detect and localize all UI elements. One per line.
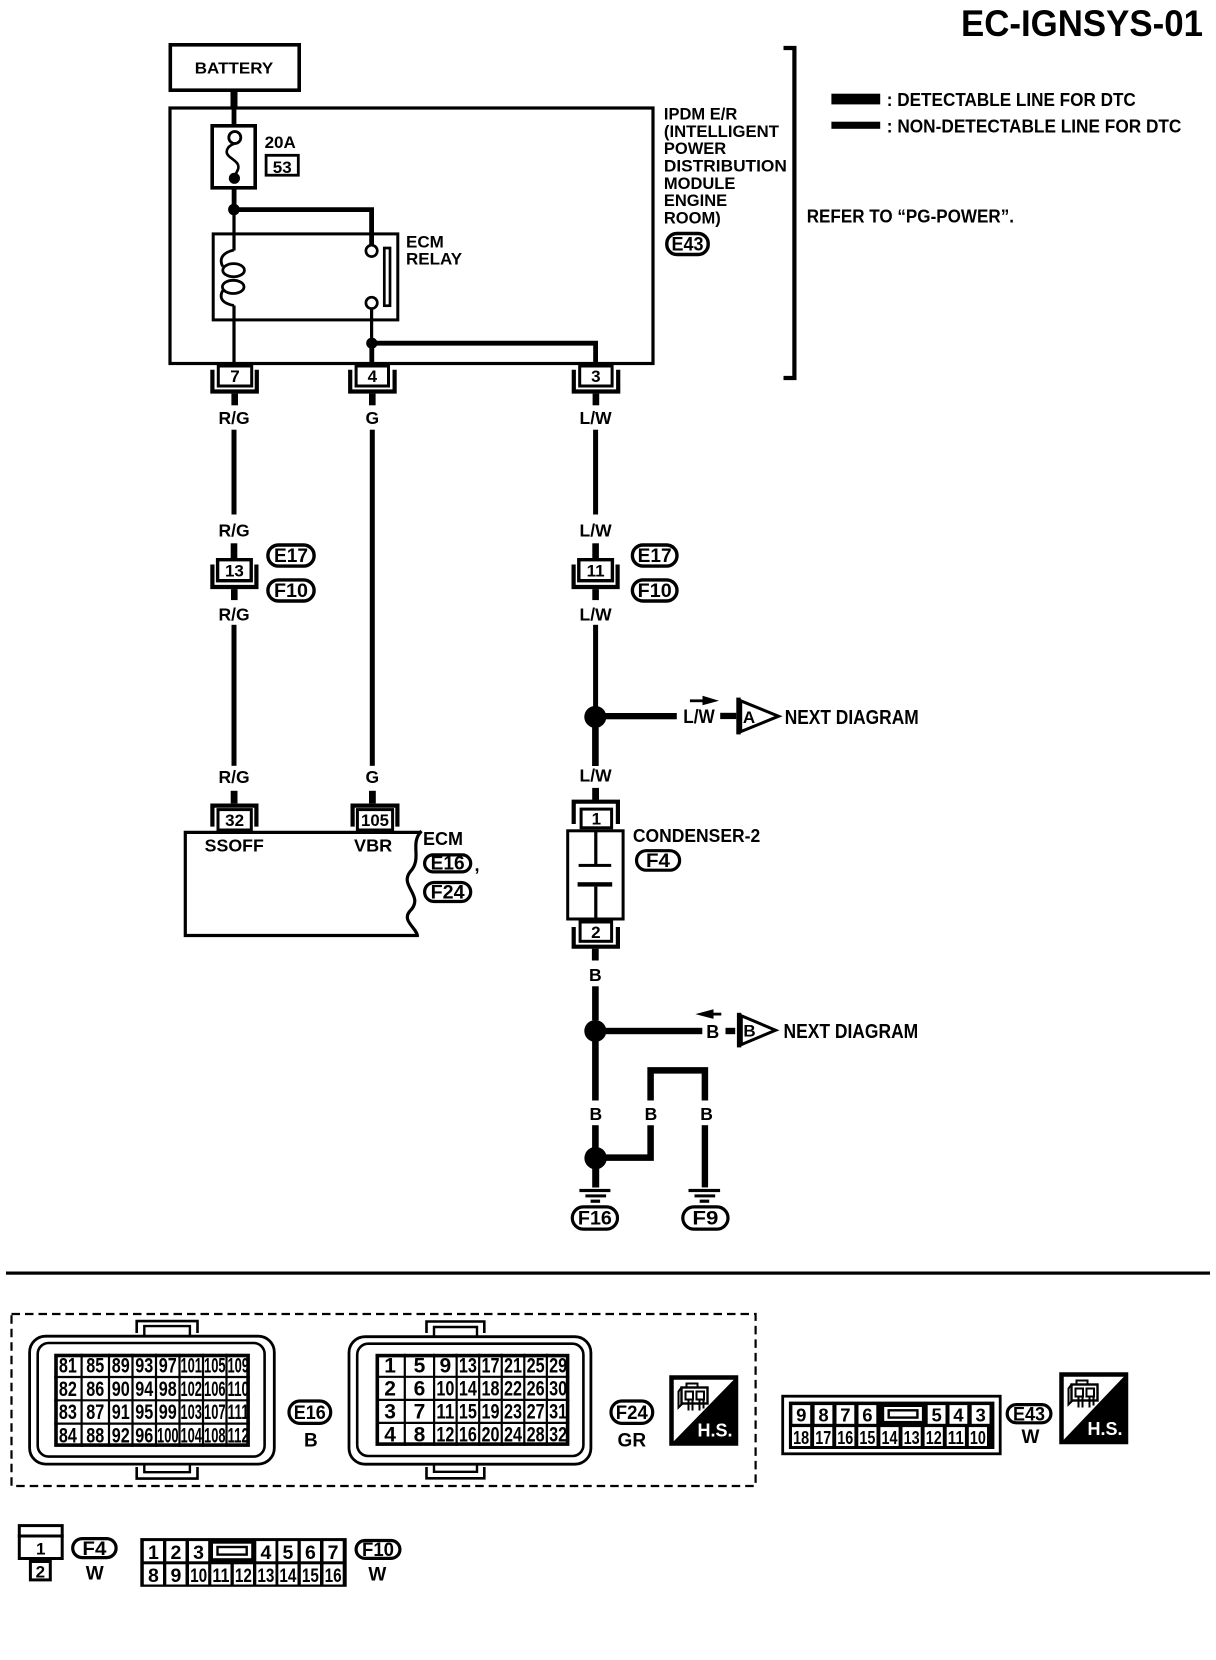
wire coil to pin 7 (232, 306, 235, 365)
connector oval E43 (IPDM) (667, 234, 708, 256)
svg-text:B: B (589, 965, 602, 985)
svg-text:G: G (365, 408, 379, 428)
svg-text:95: 95 (135, 1401, 153, 1424)
wire G segment (continuous) (370, 430, 375, 766)
svg-text:RELAY: RELAY (406, 250, 463, 269)
ground symbol F9 (689, 1189, 721, 1203)
condenser pin 2 (574, 922, 618, 947)
ECM box (185, 831, 421, 937)
wire B to junction 3 (592, 1125, 599, 1147)
svg-text:14: 14 (279, 1565, 296, 1587)
svg-text:4: 4 (953, 1405, 964, 1426)
svg-text:B: B (645, 1104, 658, 1124)
svg-text:F24: F24 (431, 883, 465, 904)
connector E43 body (783, 1396, 1001, 1454)
junction dot 2 (584, 1020, 606, 1042)
svg-text:10: 10 (970, 1427, 986, 1448)
svg-text:88: 88 (86, 1425, 104, 1448)
svg-text:E16: E16 (294, 1403, 326, 1424)
svg-text:7: 7 (230, 367, 239, 386)
svg-text:89: 89 (112, 1355, 130, 1378)
fuse number box 53 (266, 155, 298, 177)
pin 4 (IPDM) (350, 366, 394, 405)
svg-text:L/W: L/W (580, 605, 613, 625)
svg-text:13: 13 (904, 1427, 920, 1448)
connector oval F4 (condenser) (637, 851, 680, 872)
svg-text:28: 28 (527, 1424, 545, 1447)
svg-text:NEXT DIAGRAM: NEXT DIAGRAM (785, 707, 919, 729)
ground branch right leg (702, 1125, 708, 1187)
svg-text:L/W: L/W (580, 521, 613, 541)
svg-text:24: 24 (504, 1424, 522, 1447)
legend detectable bar (831, 94, 880, 105)
junction dot 3 (584, 1147, 606, 1169)
svg-text:87: 87 (86, 1401, 104, 1424)
H.S. mark (right) (1062, 1375, 1127, 1443)
svg-text:6: 6 (305, 1542, 316, 1564)
arrow above B branch (695, 1009, 721, 1019)
svg-text:81: 81 (59, 1355, 77, 1378)
ground symbol F16 (579, 1189, 610, 1203)
svg-text:3: 3 (591, 367, 600, 386)
arrow above L/W branch (690, 696, 719, 706)
svg-text:11: 11 (212, 1565, 229, 1587)
connector F10 pin cells top (144, 1541, 343, 1564)
svg-text:109: 109 (227, 1355, 249, 1378)
wire R/G segment 1 (232, 430, 237, 515)
svg-text:103: 103 (180, 1401, 202, 1424)
relay contact bar (384, 248, 390, 306)
svg-text:F10: F10 (638, 581, 672, 602)
svg-text:1: 1 (36, 1540, 45, 1559)
svg-text:4: 4 (260, 1542, 271, 1564)
connector F10 pin cells bottom (144, 1564, 343, 1587)
svg-text:9: 9 (796, 1405, 806, 1426)
svg-text:104: 104 (180, 1425, 202, 1448)
connector E43 pin cells bottom (792, 1427, 987, 1448)
svg-text:92: 92 (112, 1425, 130, 1448)
svg-text:17: 17 (815, 1427, 831, 1448)
wire R/G stub into 13 (231, 543, 238, 558)
relay contact lower circle (366, 297, 377, 308)
connector oval F4 (harness) (73, 1539, 116, 1560)
svg-text:12: 12 (926, 1427, 942, 1448)
condenser C2 body (568, 830, 623, 921)
IPDM E/R box (170, 108, 653, 364)
svg-text:F24: F24 (616, 1403, 648, 1424)
junction dot A (228, 204, 240, 216)
svg-text:R/G: R/G (218, 408, 249, 428)
svg-text:110: 110 (227, 1378, 249, 1401)
svg-text:W: W (368, 1565, 386, 1586)
wire junction A down to coil (232, 210, 235, 251)
svg-text:99: 99 (159, 1401, 177, 1424)
svg-text:16: 16 (325, 1565, 342, 1587)
svg-text:29: 29 (549, 1355, 567, 1378)
connector F24 body (349, 1322, 591, 1479)
connector oval F10 (harness) (356, 1540, 400, 1561)
svg-text:ROOM): ROOM) (664, 209, 721, 227)
wire junction B to pin 4 (369, 343, 374, 364)
svg-text:W: W (1022, 1427, 1040, 1448)
svg-text:94: 94 (135, 1378, 153, 1401)
wire L/W below junction 1 (592, 727, 599, 766)
svg-text:11: 11 (948, 1427, 964, 1448)
svg-text:32: 32 (549, 1424, 567, 1447)
svg-text:18: 18 (482, 1378, 500, 1401)
svg-text:26: 26 (527, 1378, 545, 1401)
svg-text:17: 17 (482, 1355, 500, 1378)
connector oval F9 (683, 1207, 728, 1230)
svg-text:3: 3 (384, 1401, 396, 1424)
svg-text:11: 11 (436, 1401, 454, 1424)
svg-text:7: 7 (840, 1405, 850, 1426)
svg-text:14: 14 (882, 1427, 899, 1448)
connector F10 keyway (213, 1544, 251, 1559)
svg-text:NEXT DIAGRAM: NEXT DIAGRAM (784, 1021, 919, 1043)
svg-text:105: 105 (204, 1355, 226, 1378)
H.S. mark (left) (672, 1378, 737, 1444)
svg-text:L/W: L/W (580, 408, 613, 428)
branch wire to B (595, 1028, 702, 1034)
separator line (6, 1272, 1210, 1275)
wire battery to IPDM (231, 92, 238, 109)
wire L/W stub into 11 (592, 543, 599, 558)
svg-text:107: 107 (204, 1401, 226, 1424)
svg-text:19: 19 (482, 1401, 500, 1424)
connector oval F10 (left) (268, 580, 314, 602)
svg-text:8: 8 (818, 1405, 828, 1426)
svg-text:91: 91 (112, 1401, 130, 1424)
ECM relay box (213, 234, 398, 320)
battery B1 (170, 45, 299, 90)
svg-text:83: 83 (59, 1401, 77, 1424)
branch stub to triangle A (720, 713, 736, 719)
svg-text:A: A (743, 708, 755, 727)
inline connector 11 (574, 560, 618, 600)
svg-text:F4: F4 (646, 851, 670, 872)
svg-text:SSOFF: SSOFF (205, 836, 265, 856)
svg-text:8: 8 (148, 1565, 159, 1587)
svg-text:6: 6 (414, 1378, 426, 1401)
svg-text:E43: E43 (672, 234, 704, 255)
svg-text:13: 13 (459, 1355, 477, 1378)
svg-text:12: 12 (436, 1424, 454, 1447)
svg-text:12: 12 (235, 1565, 252, 1587)
svg-text:31: 31 (549, 1401, 567, 1424)
connector oval E17 (right) (632, 545, 677, 567)
junction dot B (366, 338, 377, 349)
svg-text:16: 16 (837, 1427, 853, 1448)
wire L/W segment 2 (593, 625, 598, 707)
svg-text:H.S.: H.S. (698, 1421, 733, 1441)
svg-text:112: 112 (227, 1425, 249, 1448)
off-page triangle A (736, 698, 778, 735)
svg-text:F16: F16 (578, 1209, 612, 1230)
svg-text:101: 101 (180, 1355, 202, 1378)
svg-text:85: 85 (86, 1355, 104, 1378)
wire stub below condenser (592, 949, 599, 961)
fuse 20A 53 (212, 126, 255, 188)
wire junction 3 to ground (592, 1169, 599, 1188)
wire R/G segment 2 (232, 625, 237, 766)
svg-text:E16: E16 (431, 854, 465, 875)
svg-text:F9: F9 (692, 1209, 718, 1230)
connector oval F24 (ECM) (425, 883, 471, 904)
dashed harness box (12, 1314, 756, 1486)
svg-text:W: W (86, 1564, 104, 1585)
svg-text:E17: E17 (274, 546, 308, 567)
svg-text:F4: F4 (82, 1539, 106, 1560)
svg-text:4: 4 (384, 1424, 396, 1447)
svg-text:: DETECTABLE LINE FOR DTC: : DETECTABLE LINE FOR DTC (887, 90, 1136, 110)
pin 7 (IPDM) (212, 366, 256, 405)
svg-text:2: 2 (384, 1378, 396, 1401)
svg-text:93: 93 (135, 1355, 153, 1378)
branch wire to A (595, 713, 677, 719)
bracket right of IPDM (784, 48, 795, 378)
svg-text:B: B (589, 1104, 602, 1124)
svg-text:13: 13 (257, 1565, 274, 1587)
svg-text:3: 3 (193, 1542, 204, 1564)
wire into fuse (232, 108, 237, 132)
ground branch left leg lower (606, 1125, 651, 1157)
svg-text:GR: GR (618, 1431, 647, 1452)
svg-text:2: 2 (170, 1542, 181, 1564)
svg-text:15: 15 (302, 1565, 319, 1587)
svg-text:25: 25 (527, 1355, 545, 1378)
wire junction B to pin 3 (372, 343, 596, 364)
svg-text:R/G: R/G (218, 605, 249, 625)
svg-text:1: 1 (384, 1355, 396, 1378)
svg-text:H.S.: H.S. (1088, 1419, 1123, 1439)
relay coil (221, 250, 244, 306)
svg-text:106: 106 (204, 1378, 226, 1401)
svg-text:ENGINE: ENGINE (664, 192, 727, 210)
condenser pin 1 (574, 802, 618, 829)
connector oval E43 (harness) (1007, 1404, 1051, 1425)
svg-text:11: 11 (587, 562, 605, 581)
svg-text:97: 97 (159, 1355, 177, 1378)
svg-text:L/W: L/W (580, 766, 613, 786)
svg-text:32: 32 (225, 811, 244, 830)
svg-text:F10: F10 (274, 581, 308, 602)
svg-text:POWER: POWER (664, 140, 726, 158)
wire B below junction 2 (592, 1042, 599, 1101)
svg-text:B: B (743, 1022, 755, 1041)
IPDM annotation text (664, 106, 787, 228)
svg-text:27: 27 (527, 1401, 545, 1424)
wire fuse to junction (232, 190, 237, 205)
connector E16 body (30, 1321, 275, 1479)
connector E43 pin cells top (792, 1405, 989, 1426)
connector F4 body (18, 1526, 64, 1582)
svg-text:10: 10 (436, 1378, 454, 1401)
connector oval F10 (right) (632, 580, 677, 602)
connector F10 body (140, 1538, 346, 1587)
svg-text:30: 30 (549, 1378, 567, 1401)
svg-text:22: 22 (504, 1378, 522, 1401)
connector E43 keyway (884, 1407, 922, 1421)
svg-text:L/W: L/W (683, 707, 715, 728)
svg-text:10: 10 (190, 1565, 207, 1587)
relay contact upper circle (366, 245, 377, 256)
svg-text:E17: E17 (638, 546, 672, 567)
svg-text:18: 18 (793, 1427, 809, 1448)
svg-text:REFER TO “PG-POWER”.: REFER TO “PG-POWER”. (807, 207, 1014, 227)
svg-text:7: 7 (328, 1542, 339, 1564)
pin 3 (IPDM) (574, 366, 618, 405)
svg-text:DISTRIBUTION: DISTRIBUTION (664, 158, 787, 176)
svg-text:E43: E43 (1013, 1404, 1045, 1425)
connector oval F16 (572, 1207, 617, 1230)
svg-text:2: 2 (591, 923, 600, 942)
svg-text:1: 1 (592, 810, 601, 829)
ground branch U top (651, 1070, 705, 1100)
svg-text:EC-IGNSYS-01: EC-IGNSYS-01 (961, 3, 1203, 44)
connector oval F24 (harness) (611, 1401, 653, 1424)
svg-text:2: 2 (36, 1563, 45, 1582)
svg-text:(INTELLIGENT: (INTELLIGENT (664, 123, 779, 141)
wire junction A to relay contact (234, 210, 372, 245)
wire contact to junction B (370, 309, 373, 344)
connector E16 pin grid (54, 1354, 250, 1448)
off-page triangle B (737, 1013, 776, 1048)
svg-text:13: 13 (225, 562, 244, 581)
legend non-detectable bar (831, 122, 880, 129)
wire B to junction 2 (592, 986, 599, 1020)
svg-text:7: 7 (414, 1401, 426, 1424)
svg-text:4: 4 (368, 367, 378, 386)
inline connector 13 (212, 560, 256, 600)
svg-text:,: , (475, 855, 480, 875)
svg-text:R/G: R/G (218, 521, 249, 541)
svg-text:B: B (700, 1104, 713, 1124)
svg-text:3: 3 (975, 1405, 985, 1426)
svg-text:9: 9 (170, 1565, 181, 1587)
pin 32 (ECM) (212, 806, 256, 830)
svg-text:1: 1 (148, 1542, 159, 1564)
svg-text:86: 86 (86, 1378, 104, 1401)
svg-text:100: 100 (157, 1425, 179, 1448)
wire R/G stub to pin 32 (231, 791, 238, 804)
svg-text:98: 98 (159, 1378, 177, 1401)
svg-text:105: 105 (361, 811, 389, 830)
svg-text:B: B (706, 1022, 719, 1042)
svg-text:G: G (365, 767, 379, 787)
svg-text:9: 9 (440, 1355, 452, 1378)
connector oval E16 (harness) (289, 1401, 331, 1424)
svg-text:CONDENSER-2: CONDENSER-2 (633, 826, 760, 846)
connector F24 pin grid (376, 1354, 570, 1447)
svg-text:111: 111 (227, 1401, 249, 1424)
svg-text:53: 53 (273, 158, 292, 177)
svg-text:21: 21 (504, 1355, 522, 1378)
svg-text:5: 5 (414, 1355, 426, 1378)
svg-text:82: 82 (59, 1378, 77, 1401)
connector oval E17 (left) (268, 545, 314, 567)
svg-text:108: 108 (204, 1425, 226, 1448)
wire L/W segment 1 (593, 430, 598, 515)
junction dot 1 (584, 706, 606, 728)
svg-text:15: 15 (459, 1401, 477, 1424)
svg-text:5: 5 (282, 1542, 293, 1564)
svg-text:5: 5 (931, 1405, 941, 1426)
svg-text:16: 16 (459, 1424, 477, 1447)
svg-text:VBR: VBR (354, 836, 393, 856)
svg-text:96: 96 (135, 1425, 153, 1448)
svg-text:: NON-DETECTABLE LINE FOR DTC: : NON-DETECTABLE LINE FOR DTC (887, 116, 1182, 136)
wire stub to condenser pin 1 (592, 788, 599, 801)
svg-text:90: 90 (112, 1378, 130, 1401)
svg-text:ECM: ECM (423, 829, 463, 849)
svg-text:20A: 20A (265, 133, 296, 152)
svg-text:IPDM E/R: IPDM E/R (664, 106, 737, 124)
svg-text:F10: F10 (362, 1540, 394, 1561)
svg-text:102: 102 (180, 1378, 202, 1401)
svg-text:BATTERY: BATTERY (195, 61, 274, 78)
svg-text:MODULE: MODULE (664, 175, 736, 193)
svg-text:23: 23 (504, 1401, 522, 1424)
svg-text:8: 8 (414, 1424, 426, 1447)
svg-text:B: B (304, 1431, 318, 1452)
connector oval E16 (ECM) (425, 854, 471, 875)
svg-text:15: 15 (859, 1427, 875, 1448)
branch stub to triangle B (726, 1028, 736, 1034)
pin 105 (ECM) (353, 806, 398, 830)
svg-text:14: 14 (459, 1378, 477, 1401)
svg-text:R/G: R/G (218, 767, 249, 787)
svg-text:20: 20 (482, 1424, 500, 1447)
svg-text:6: 6 (862, 1405, 872, 1426)
svg-text:84: 84 (59, 1425, 77, 1448)
wire G stub to pin 105 (369, 791, 376, 804)
